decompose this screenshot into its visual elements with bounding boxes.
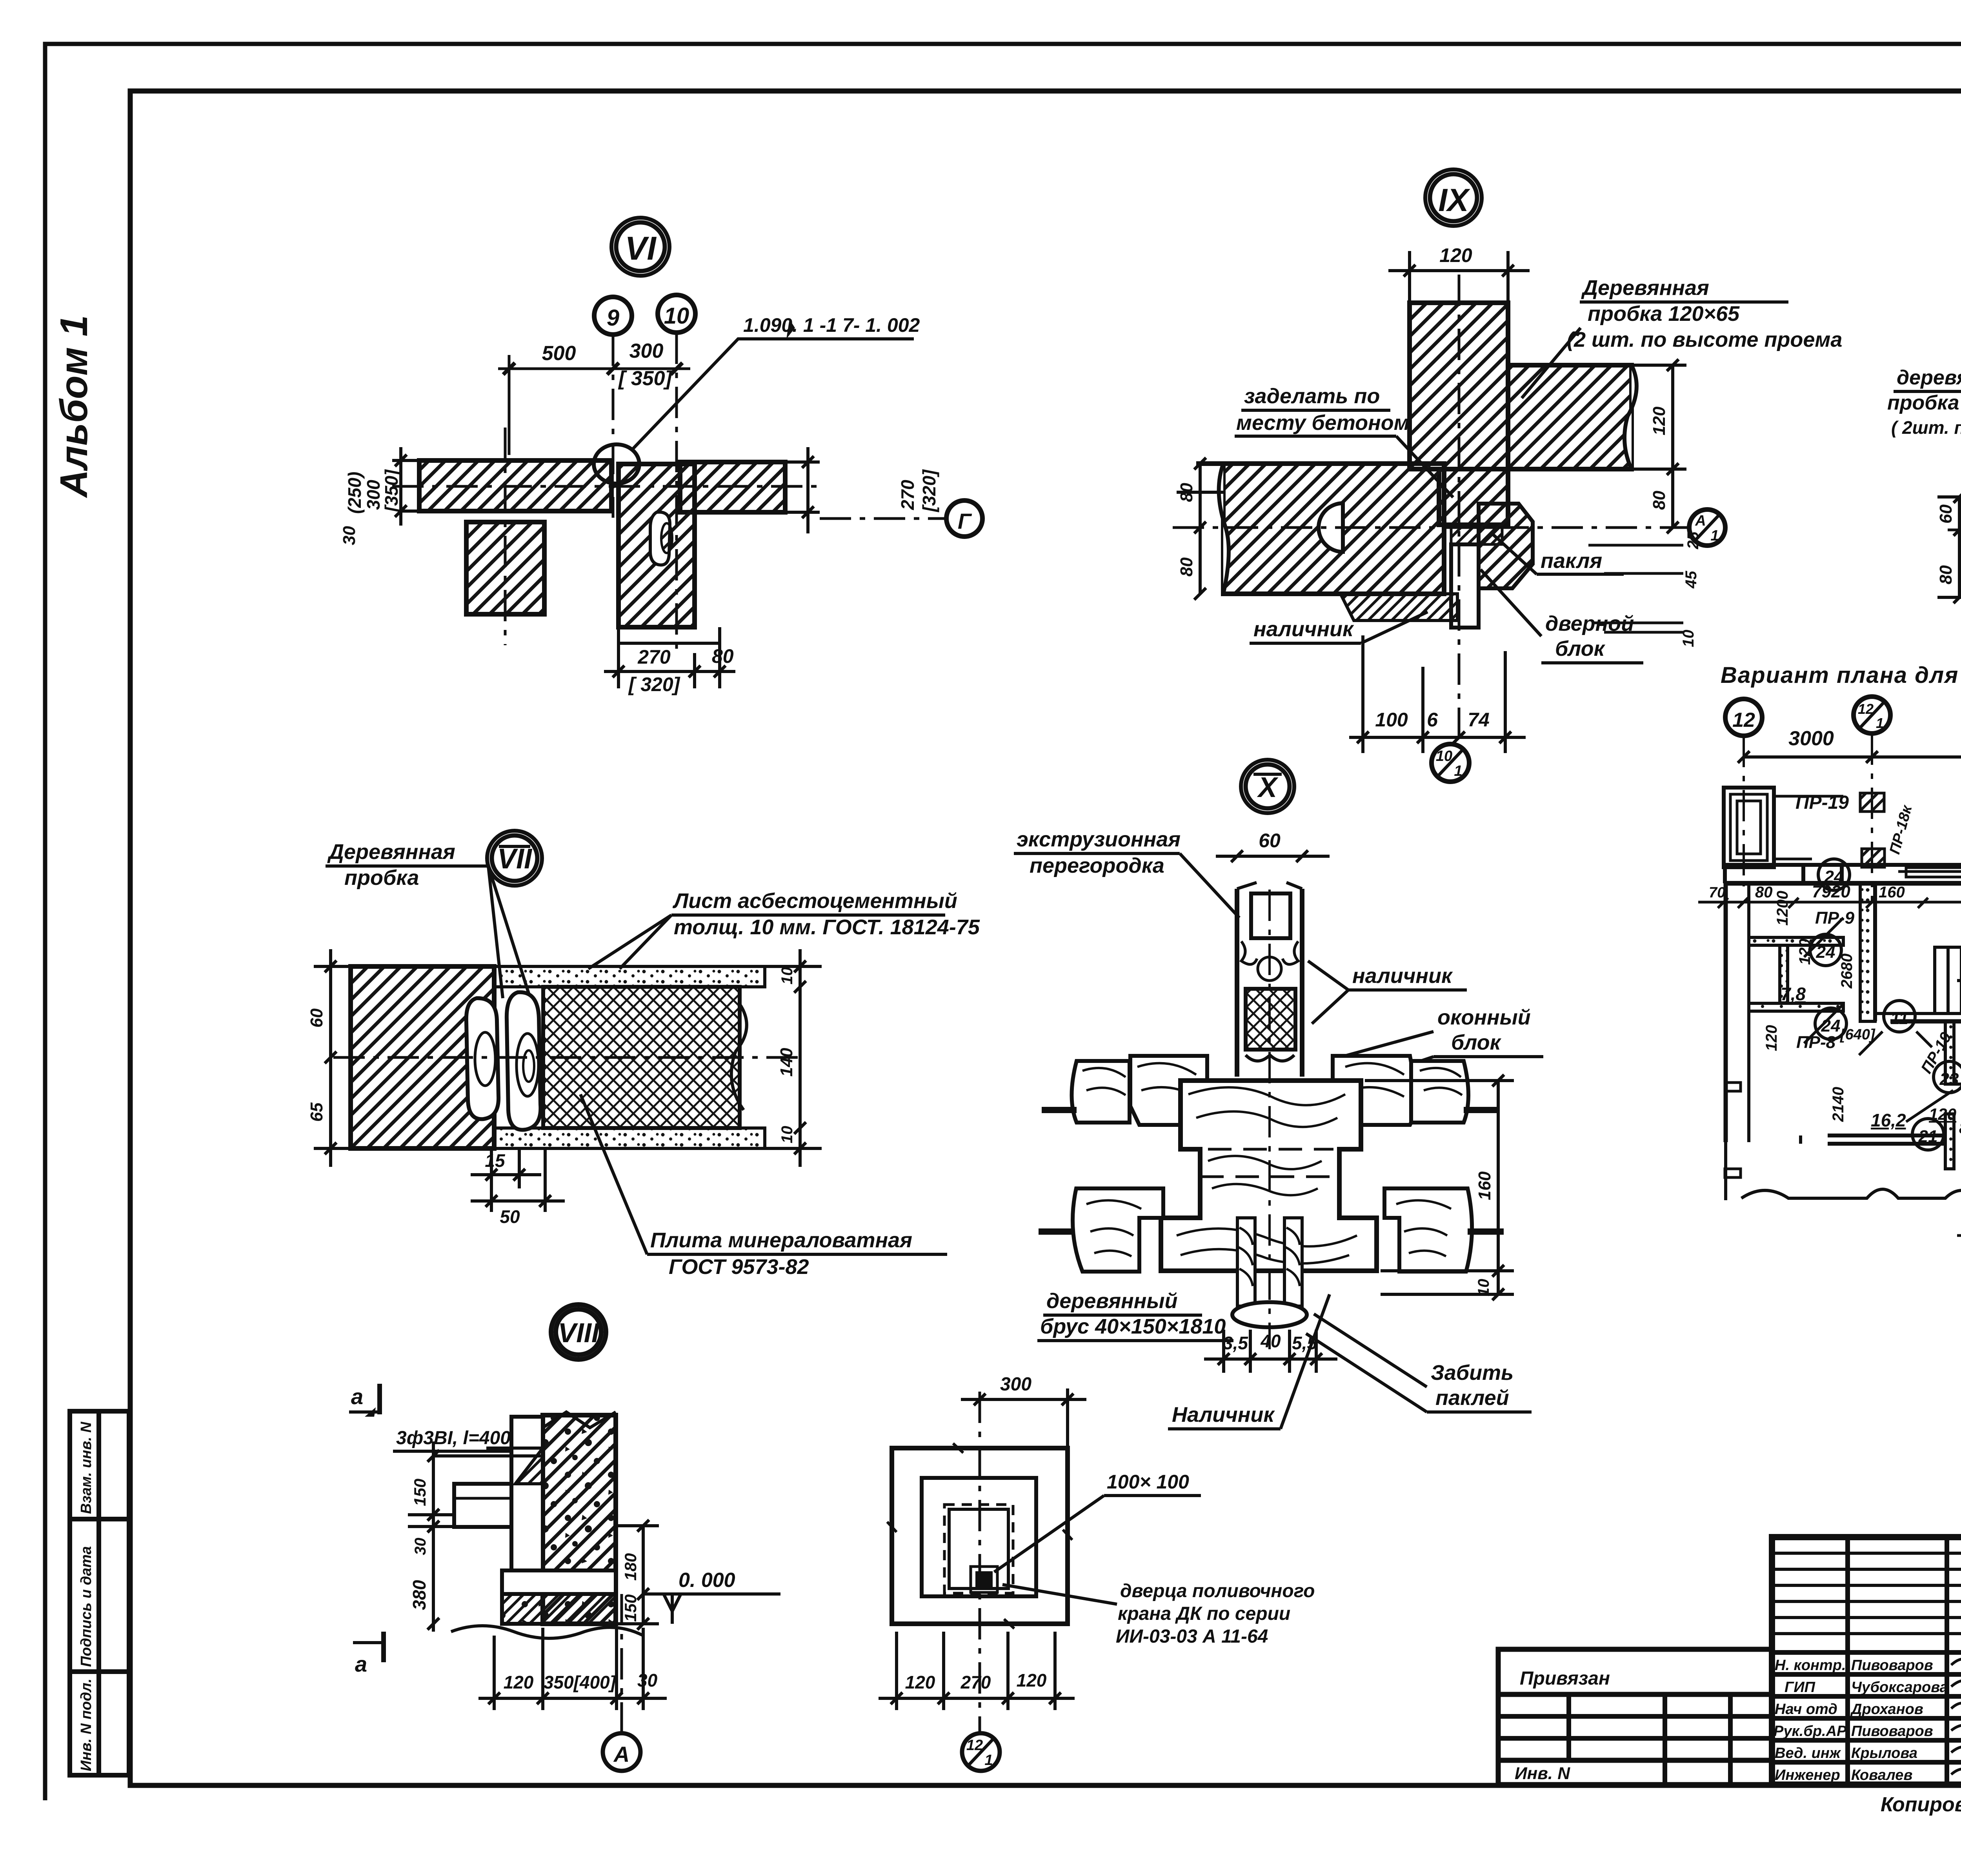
axis circle 12/1 [1854,697,1890,733]
central wall [618,464,695,627]
right small level dims [1588,545,1683,632]
svg-text:[640]: [640] [1840,1026,1876,1043]
axis 12/1 [962,1733,1000,1771]
node X marker circle [1241,760,1294,813]
svg-text:пробка: пробка [344,866,419,890]
axis circle 9 [594,297,632,335]
svg-text:крана ДК по серии: крана ДК по серии [1118,1603,1290,1624]
svg-text:Взам. инв. N: Взам. инв. N [78,1421,95,1514]
svg-text:Копировал:: Копировал: [1881,1793,1961,1816]
right dim 160 / 10 [1365,1075,1514,1300]
svg-text:60: 60 [1259,830,1281,852]
svg-text:9: 9 [607,305,619,331]
svg-text:2680: 2680 [1838,953,1855,989]
svg-text:1200: 1200 [1774,891,1791,926]
window sashes lower [1073,1188,1163,1272]
wall band: left masonry [351,966,494,1148]
casing strip [1341,594,1457,620]
axis circle 10 [658,295,695,333]
vestibule door block top-left [1724,788,1843,867]
svg-text:12: 12 [1858,701,1874,717]
node IX marker circle [1425,169,1482,226]
svg-text:23: 23 [1939,1070,1959,1089]
middle rect [922,1478,1036,1596]
dashed liner [944,1505,1013,1593]
svg-text:экструзионная: экструзионная [1017,828,1181,851]
interior partitions left [1749,883,1875,1021]
svg-text:Пивоваров: Пивоваров [1851,1657,1933,1674]
svg-text:ПР-19: ПР-19 [1795,792,1849,813]
svg-text:30: 30 [340,526,359,545]
svg-text:16,2: 16,2 [1871,1110,1906,1130]
svg-text:10: 10 [1475,1279,1492,1297]
svg-text:ГОСТ 9573-82: ГОСТ 9573-82 [669,1255,809,1279]
bottom dims of VI [604,627,735,688]
svg-text:дверца поливочного: дверца поливочного [1120,1581,1315,1601]
right floor slab [680,462,785,512]
svg-text:VI: VI [625,230,657,267]
center dash-dot lines [1173,275,1687,743]
mineral wool board crosshatch [543,987,740,1128]
bottom mortar strip [494,1128,765,1148]
svg-text:180: 180 [621,1553,640,1581]
svg-text:Дроханов: Дроханов [1850,1701,1923,1718]
inner duct [949,1509,1008,1589]
svg-text:блок: блок [1555,637,1606,661]
svg-text:80: 80 [1755,884,1773,901]
svg-text:а: а [351,1384,363,1409]
svg-text:Деревянная: Деревянная [327,840,455,864]
svg-text:Инв. N подл.: Инв. N подл. [78,1679,95,1771]
svg-text:брус 40×150×1810: брус 40×150×1810 [1040,1315,1226,1338]
node VII marker circle [487,831,542,886]
white jamb strip [511,1417,543,1570]
lower break line [451,1626,643,1638]
svg-text:Крылова: Крылова [1851,1745,1917,1761]
svg-text:100: 100 [1375,709,1408,731]
main wood body [1161,1081,1377,1271]
svg-text:65: 65 [307,1103,326,1122]
signature rows texts [1774,1657,1948,1783]
top wall piers hatched [1860,793,1884,812]
svg-text:10: 10 [664,303,689,329]
svg-text:наличник: наличник [1352,964,1453,988]
bottom dims 120 270 120 [879,1632,1075,1710]
window sashes upper left [1072,1061,1130,1123]
svg-text:270: 270 [897,480,918,510]
floor slab [502,1570,616,1594]
svg-text:2140: 2140 [1830,1087,1847,1122]
axis circle 12 [1725,699,1762,736]
svg-text:80: 80 [712,645,734,667]
svg-text:Вед. инж: Вед. инж [1775,1745,1841,1761]
svg-text:Чубоксарова: Чубоксарова [1851,1679,1948,1696]
svg-text:30: 30 [412,1538,429,1556]
svg-text:80: 80 [1936,565,1956,584]
axis A [620,1594,623,1733]
left attachment table [1498,1649,1772,1785]
svg-text:120: 120 [1439,244,1472,266]
svg-text:пакля: пакля [1541,549,1602,573]
top dim 300 [961,1388,1086,1448]
lower labels/circles [1934,1061,1961,1093]
dim ticks left of slab [392,447,419,526]
svg-text:30: 30 [637,1670,658,1690]
svg-text:150: 150 [621,1594,640,1622]
svg-text:Ковалев: Ковалев [1851,1767,1912,1783]
stair [1935,947,1961,1014]
svg-text:160: 160 [1879,884,1905,901]
svg-text:3,5: 3,5 [1223,1333,1248,1353]
svg-text:12: 12 [966,1737,983,1754]
svg-text:45: 45 [1683,571,1700,589]
svg-text:X: X [1257,772,1279,803]
svg-text:80: 80 [1959,1119,1961,1137]
bottom dims 100 6 74 [1349,635,1526,753]
svg-text:21: 21 [1918,1127,1938,1146]
svg-text:500: 500 [542,342,576,365]
svg-text:VIII: VIII [558,1317,600,1348]
door jamb plug detail [650,512,670,565]
svg-text:0. 000: 0. 000 [679,1569,735,1592]
svg-text:150: 150 [411,1479,429,1506]
svg-text:Инв. N: Инв. N [1515,1764,1570,1783]
svg-text:15: 15 [485,1150,506,1171]
svg-text:Лист асбестоцементный: Лист асбестоцементный [672,889,957,913]
svg-text:Вариант плана для t°= -: Вариант плана для t°= - 40° [1721,662,1961,688]
oakum strip [1451,528,1502,544]
svg-text:Н. контр.: Н. контр. [1775,1657,1846,1674]
axis verticals dash-dot [1744,731,1961,1271]
svg-text:Альбом 1: Альбом 1 [52,315,95,499]
bottom dims 15 50 [471,1148,565,1212]
svg-text:А: А [613,1742,629,1767]
svg-text:А: А [1695,513,1706,529]
wall arm right [1508,365,1632,469]
main hall walls [1875,883,1961,1028]
svg-text:Подпись и дата: Подпись и дата [78,1546,95,1667]
svg-text:деревянная: деревянная [1897,366,1961,389]
svg-text:40: 40 [1260,1331,1281,1351]
wooden plugs [466,998,498,1119]
svg-text:11: 11 [1890,1009,1908,1028]
dim row under top wall [1698,898,1961,908]
break line bottom of plan [1741,1189,1961,1198]
svg-text:перегородка: перегородка [1030,854,1164,877]
centreline [979,1392,981,1733]
name rows [1772,1652,1961,1762]
svg-text:24: 24 [1821,1016,1841,1035]
svg-text:ИИ-03-03 А 11-64: ИИ-03-03 А 11-64 [1116,1626,1268,1647]
svg-text:270: 270 [960,1672,991,1692]
svg-text:ГИП: ГИП [1785,1679,1815,1696]
svg-text:300: 300 [629,340,664,362]
svg-text:паклей: паклей [1435,1386,1509,1410]
circled 24s [1818,859,1850,890]
svg-text:300: 300 [1000,1374,1031,1395]
wall column vertical [1410,303,1508,525]
svg-text:10: 10 [1436,748,1452,764]
svg-text:7,8: 7,8 [1781,984,1806,1004]
axis circle 10/1 bottom [1432,744,1469,782]
svg-text:[350]: [350] [381,469,402,513]
svg-text:месту бетоном: месту бетоном [1236,411,1410,435]
svg-text:25: 25 [1684,531,1702,550]
svg-text:Г: Г [958,509,972,533]
svg-text:(250): (250) [344,472,365,514]
svg-text:пробка 120×65: пробка 120×65 [1887,391,1961,414]
centreline [333,1056,800,1059]
svg-text:1: 1 [984,1752,993,1769]
top axis dim line [1738,751,1961,763]
svg-text:1.090. 1 -1 7- 1. 002: 1.090. 1 -1 7- 1. 002 [743,314,920,336]
svg-text:80: 80 [1650,491,1669,510]
svg-text:12: 12 [1732,709,1755,731]
svg-text:50: 50 [500,1206,520,1227]
outer casing rect [892,1448,1068,1624]
svg-text:Деревянная: Деревянная [1581,276,1709,300]
jamb profile [1479,504,1533,588]
svg-text:120: 120 [1796,939,1814,965]
bottom dim rows [1957,1196,1961,1247]
svg-text:160: 160 [1475,1171,1494,1200]
svg-text:Инженер: Инженер [1775,1767,1840,1783]
svg-text:[320]: [320] [919,469,939,513]
top mortar strip [494,966,765,987]
left dim stack [408,1441,543,1632]
svg-text:заделать по: заделать по [1244,384,1380,408]
svg-text:80: 80 [1177,483,1196,502]
top dim 60 [1216,850,1330,862]
svg-text:380: 380 [409,1580,429,1610]
bottom dims 120 350[400] 30 [478,1628,667,1710]
svg-text:деревянный: деревянный [1046,1289,1177,1313]
svg-text:10: 10 [1680,630,1697,648]
left wall [1726,883,1749,1200]
top wall band [1725,865,1961,883]
svg-text:(2 шт. по высоте проема: (2 шт. по высоте проема [1567,328,1842,351]
svg-text:120: 120 [1650,406,1669,435]
oakum channels [1237,1218,1302,1306]
break marks [887,1443,1072,1629]
svg-text:1: 1 [1876,715,1884,731]
left side dims 80 80 [1177,458,1223,600]
svg-text:3ф3ВI, l=400: 3ф3ВI, l=400 [396,1428,511,1448]
top line from slab to column [1196,461,1410,466]
svg-text:толщ. 10 мм. ГОСТ. 18124-75: толщ. 10 мм. ГОСТ. 18124-75 [674,915,980,939]
svg-text:270: 270 [637,646,671,668]
right vertical dim 120 [1508,359,1686,533]
svg-text:блок: блок [1451,1031,1502,1054]
svg-text:Пивоваров: Пивоваров [1851,1723,1933,1740]
svg-text:120: 120 [905,1672,935,1692]
svg-text:120: 120 [504,1672,534,1692]
svg-text:10: 10 [779,1126,796,1144]
svg-text:10: 10 [779,967,796,985]
svg-text:( 2шт. по высоте проема): ( 2шт. по высоте проема) [1891,417,1961,438]
mullion tube [1237,883,1302,1077]
door block [1451,544,1479,628]
svg-text:120: 120 [1929,1105,1956,1123]
svg-text:7920: 7920 [1812,882,1850,901]
node VIII marker circle [551,1305,606,1359]
svg-text:74: 74 [1468,709,1490,731]
svg-text:Наличник: Наличник [1172,1403,1275,1427]
svg-text:1: 1 [1454,763,1462,779]
svg-text:6: 6 [1427,709,1438,731]
partitions lower [1801,1021,1961,1169]
circle 11 [1884,1001,1915,1032]
svg-text:Забить: Забить [1431,1361,1513,1385]
left dims 60 65 [314,949,348,1167]
main title block frame [1772,1537,1961,1785]
bottom dims 3,5 40 5,5 [1204,1330,1337,1373]
svg-text:[ 320]: [ 320] [628,673,681,695]
svg-text:24: 24 [1816,943,1835,962]
upper grid rows [1772,1553,1961,1634]
svg-text:IX: IX [1438,182,1470,218]
right dim 180 150 [616,1520,659,1630]
dimension line 500 / 300 [498,355,690,455]
signatures squiggles [1951,1656,1961,1776]
svg-text:наличник: наличник [1253,617,1354,641]
svg-text:Нач отд: Нач отд [1775,1701,1837,1718]
left dims 60 80 [1937,491,1961,603]
axis dash-dot lines [392,333,820,653]
svg-text:1: 1 [1710,528,1719,544]
ledge block [454,1484,511,1527]
svg-text:140: 140 [777,1048,796,1077]
hole 100x100 [975,1571,993,1589]
top dim 120 [1388,251,1530,302]
svg-text:а: а [355,1652,367,1676]
svg-text:Привязан: Привязан [1520,1668,1610,1689]
svg-text:80: 80 [1177,557,1196,577]
axis А/1 [1689,509,1725,546]
svg-text:Плита минераловатная: Плита минераловатная [650,1228,912,1252]
svg-text:120: 120 [1763,1025,1780,1051]
svg-text:120: 120 [1017,1670,1047,1690]
svg-text:100× 100: 100× 100 [1107,1471,1189,1493]
svg-text:70: 70 [1709,884,1725,901]
svg-text:60: 60 [307,1008,326,1028]
svg-text:оконный: оконный [1437,1006,1531,1029]
anchor wedge [515,1448,543,1484]
window sashes upper right [1333,1056,1419,1125]
svg-text:3000: 3000 [1788,727,1834,750]
left stamp strip table [70,1411,129,1775]
svg-text:ПР-8: ПР-8 [1796,1033,1836,1052]
concrete wall [543,1415,616,1624]
svg-text:Рук.бр.АР: Рук.бр.АР [1774,1723,1847,1740]
node VI marker circle [611,218,669,276]
left floor slab [419,460,611,511]
centre dash-dot lines [1948,345,1961,739]
axis Г [820,517,946,520]
column below left slab [466,522,544,614]
vertical columns of left part [1848,1537,1961,1785]
right rotated dims [785,447,820,533]
svg-text:300: 300 [363,480,384,510]
svg-text:пробка 120×65: пробка 120×65 [1588,302,1740,326]
svg-text:[ 350]: [ 350] [618,367,673,390]
left slab [1223,464,1444,594]
right dims 10 140 10 [765,949,822,1167]
reference leader 1.090.1-1 7-1.002 [594,444,639,484]
svg-text:350[400]: 350[400] [544,1672,617,1692]
svg-text:60: 60 [1936,504,1956,524]
